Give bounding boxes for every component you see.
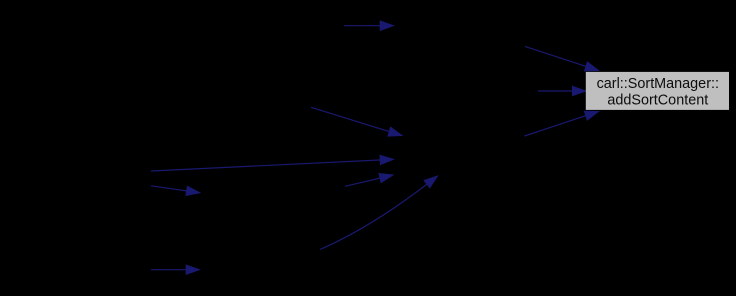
arrowhead F	[424, 176, 437, 188]
arrowhead I	[573, 86, 586, 95]
arrowhead H	[585, 62, 599, 71]
edge C: far-left caller → hidden node (long shallow line)	[151, 155, 394, 171]
edge D: left caller → hidden middle node (short arrow)	[151, 186, 200, 196]
edge B: hidden caller → hidden node (diagonal down-right)	[311, 107, 402, 136]
svg-text:addSortContent: addSortContent	[607, 93, 708, 109]
edge A: caller → hidden node (top horizontal arrow)	[344, 21, 394, 30]
arrowhead D	[186, 186, 200, 195]
wire I	[538, 90, 576, 92]
arrowhead A	[380, 21, 393, 30]
edge J: hidden caller → addSortContent (into box bottom-left)	[525, 111, 599, 136]
wire F	[320, 182, 430, 249]
wire E	[345, 177, 383, 186]
wire J	[525, 115, 590, 136]
edge G: bottom-left caller → hidden node (bottom horizontal arrow)	[151, 265, 200, 274]
arrowhead B	[388, 127, 402, 136]
arrowhead G	[186, 265, 199, 274]
arrowhead C	[380, 155, 394, 164]
arrowhead J	[584, 111, 598, 120]
svg-text:carl::SortManager::: carl::SortManager::	[597, 76, 719, 92]
edge F: lower caller → hidden node (curved up-right arrow)	[320, 176, 438, 250]
wire G	[151, 269, 190, 271]
edge H: hidden caller → addSortContent (into box top-left)	[525, 46, 599, 70]
node: carl::SortManager::addSortContent (highlighted grey box)	[586, 72, 729, 110]
wire H	[525, 46, 589, 67]
wire A	[344, 25, 384, 27]
edge E: hidden middle node → hidden node (short up-right arrow)	[345, 174, 393, 187]
edge I: hidden caller → addSortContent (into box left edge)	[538, 86, 586, 95]
wire C	[151, 160, 384, 171]
wire D	[151, 186, 190, 192]
arrowhead E	[379, 174, 393, 183]
wire B	[311, 107, 393, 132]
